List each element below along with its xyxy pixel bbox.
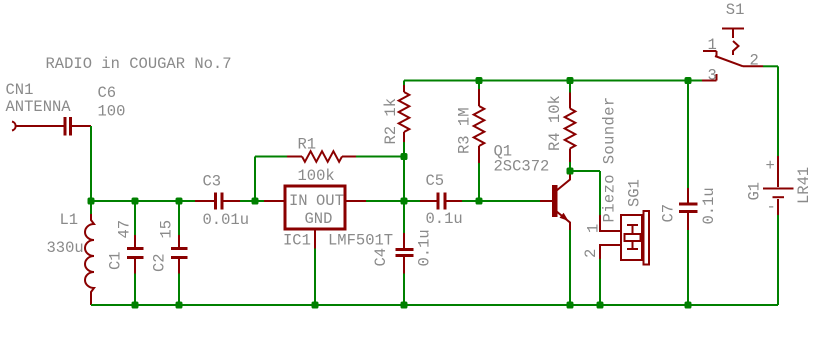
node R3/base [476, 198, 483, 205]
svg-text:100: 100 [98, 103, 126, 121]
junction C7 bottom [685, 302, 692, 309]
svg-text:R2 1k: R2 1k [382, 98, 400, 145]
svg-text:LMF501T: LMF501T [328, 232, 393, 250]
wire piezo pin1 down [599, 171, 601, 215]
wire piezo pin2 down [599, 259, 601, 305]
svg-text:C4: C4 [372, 248, 390, 267]
node C7 top [685, 77, 692, 84]
node R3 top [476, 77, 483, 84]
svg-text:LR41: LR41 [795, 167, 813, 204]
resistor R3 [474, 81, 485, 202]
wire collector to piezo [570, 170, 600, 172]
wire C3 to IC in [240, 200, 264, 202]
svg-text:0.1u: 0.1u [700, 187, 718, 224]
svg-text:SG1: SG1 [626, 179, 644, 207]
wire OUT to C5 [366, 200, 420, 202]
svg-text:OUT: OUT [316, 192, 344, 210]
inductor L1 [85, 201, 94, 305]
wire battery top [777, 66, 779, 156]
svg-text:2: 2 [750, 51, 759, 69]
IC1 pin GND lead [314, 230, 316, 249]
connector CN1 (antenna jack) [12, 122, 16, 131]
svg-text:2: 2 [582, 249, 600, 258]
wire antenna down [90, 126, 92, 201]
node R4 top [567, 77, 574, 84]
svg-text:Piezo Sounder: Piezo Sounder [601, 96, 619, 222]
svg-text:2SC372: 2SC372 [494, 158, 550, 176]
junction C4 bottom [401, 302, 408, 309]
svg-text:3: 3 [708, 67, 717, 85]
op-amp IC1 box [285, 186, 345, 229]
capacitor C5 [420, 193, 462, 210]
svg-text:0.01u: 0.01u [203, 211, 250, 229]
wire R1 branch up [254, 157, 256, 202]
wire GND down [314, 249, 316, 306]
node R1/IN junction [252, 198, 259, 205]
svg-text:C2: C2 [151, 253, 169, 272]
svg-text:C7: C7 [660, 204, 678, 223]
svg-text:R4 10k: R4 10k [546, 95, 564, 151]
wire battery down [777, 215, 779, 305]
node at L1 top [88, 198, 95, 205]
svg-text:1: 1 [585, 224, 603, 233]
junction C2 top [176, 198, 183, 205]
svg-text:+: + [766, 157, 775, 175]
svg-text:-: - [767, 198, 776, 216]
svg-text:R1: R1 [298, 136, 317, 154]
wire switch to battery [763, 65, 778, 67]
svg-text:C5: C5 [426, 172, 445, 190]
resistor R1 [287, 151, 356, 162]
switch S1 [702, 29, 763, 81]
svg-text:IN: IN [289, 192, 308, 210]
svg-text:C3: C3 [203, 173, 222, 191]
wire R2 bottom to OUT node [403, 142, 405, 201]
junction C1 top [132, 198, 139, 205]
svg-text:G1: G1 [746, 182, 764, 201]
svg-text:47: 47 [116, 220, 134, 239]
svg-text:C1: C1 [107, 251, 125, 270]
wire R1 right [356, 156, 404, 158]
IC1 pin IN lead [264, 200, 284, 202]
wire emitter down [569, 230, 571, 305]
bottom bus wire [91, 304, 778, 306]
resistor R2 [399, 81, 410, 143]
transistor Q1 [540, 171, 570, 230]
resistor R4 [565, 81, 576, 172]
svg-text:CN1: CN1 [6, 81, 34, 99]
svg-text:RADIO in COUGAR No.7: RADIO in COUGAR No.7 [46, 55, 232, 73]
capacitor C4 [396, 201, 414, 305]
node R1/R2 [401, 153, 408, 160]
svg-text:1: 1 [708, 36, 717, 54]
svg-text:IC1: IC1 [283, 232, 311, 250]
wire R1 left [255, 156, 287, 158]
junction C2 bottom [176, 302, 183, 309]
svg-text:ANTENNA: ANTENNA [6, 98, 72, 116]
junction C1 bottom [132, 302, 139, 309]
node collector [567, 168, 574, 175]
top bus wire [404, 80, 702, 82]
node OUT/R2/C4 [401, 198, 408, 205]
capacitor C1 [127, 201, 144, 305]
wire mid bus left [91, 200, 195, 202]
svg-text:L1: L1 [60, 211, 79, 229]
piezo sounder SG1 [600, 211, 649, 265]
svg-text:15: 15 [158, 220, 176, 239]
capacitor C3 [195, 193, 240, 210]
svg-text:C6: C6 [98, 84, 117, 102]
svg-text:R3 1M: R3 1M [456, 107, 474, 154]
capacitor C2 [171, 201, 188, 305]
capacitor C7 [679, 81, 698, 306]
junction GND bottom [312, 302, 319, 309]
junction piezo pin2 bottom [597, 302, 604, 309]
svg-text:S1: S1 [726, 1, 745, 19]
battery G1 [763, 156, 794, 215]
svg-text:100k: 100k [298, 167, 335, 185]
junction emitter bottom [567, 302, 574, 309]
svg-text:330u: 330u [47, 239, 84, 257]
capacitor C6 [17, 117, 92, 136]
svg-text:0.1u: 0.1u [416, 229, 434, 266]
wire C5 to R3 node [462, 200, 540, 202]
IC1 pin OUT lead [346, 200, 366, 202]
svg-text:GND: GND [305, 210, 333, 228]
svg-text:0.1u: 0.1u [426, 210, 463, 228]
